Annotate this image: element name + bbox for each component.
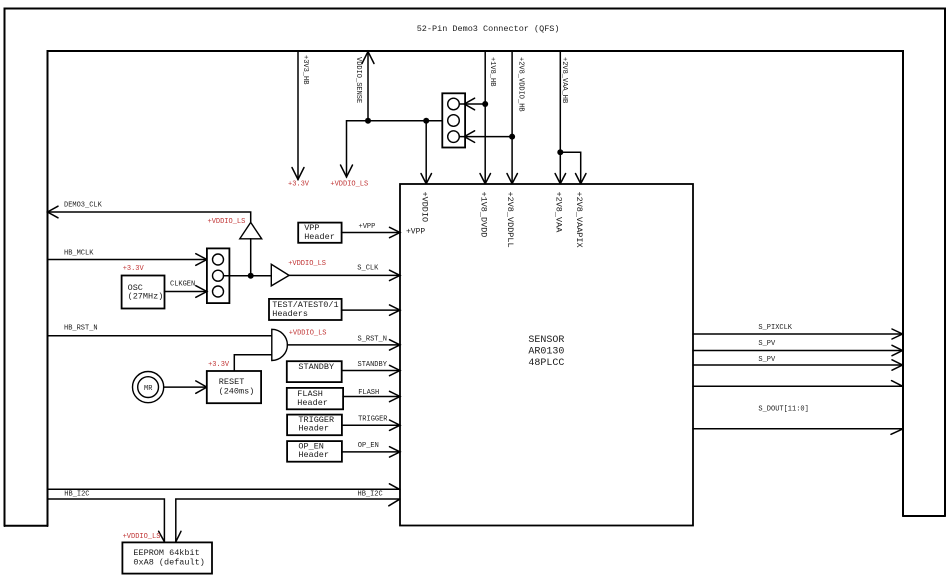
wire +1V8_HB drop bbox=[484, 51, 486, 184]
gate U4 AND bbox=[272, 329, 288, 360]
svg-text:0xA8 (default): 0xA8 (default) bbox=[133, 557, 204, 567]
wire STANDBY bbox=[342, 370, 400, 372]
svg-text:+2V8_VDDPLL: +2V8_VDDPLL bbox=[505, 192, 515, 248]
junction S_CLK tap bbox=[248, 273, 254, 279]
wire +2V8_VDDIO_HB drop bbox=[511, 51, 513, 184]
wire HB_I2C SDA left to eeprom bbox=[48, 499, 165, 542]
svg-text:+VDDIO_LS: +VDDIO_LS bbox=[123, 533, 161, 541]
junction VDDIO_SENSE bbox=[365, 118, 371, 124]
arrow OP_EN into sensor bbox=[390, 447, 401, 457]
pin 3 bbox=[213, 286, 224, 297]
wire CLKGEN bbox=[165, 291, 207, 293]
svg-text:FLASH: FLASH bbox=[358, 389, 379, 397]
arrow S_PIXCLK bbox=[892, 329, 903, 339]
svg-text:(27MHz): (27MHz) bbox=[128, 292, 164, 302]
svg-text:Headers: Headers bbox=[272, 309, 308, 319]
junction +VDDIO drop bbox=[423, 118, 429, 124]
pin 3 bbox=[448, 131, 460, 143]
svg-text:HB_RST_N: HB_RST_N bbox=[64, 325, 98, 333]
svg-text:+VDDIO_LS: +VDDIO_LS bbox=[208, 218, 246, 226]
connector left end join bbox=[5, 525, 48, 527]
wire +2V8_VAA_HB drop bbox=[559, 51, 561, 184]
oscillator Y1 bbox=[122, 276, 165, 309]
arrow CLKGEN into header bbox=[196, 286, 207, 298]
arrow +2V8_VAA pin bbox=[555, 174, 566, 184]
arrow HB_MCLK into header bbox=[196, 254, 207, 266]
arrow into eeprom right bbox=[176, 531, 181, 542]
arrow +VDDIO pin bbox=[421, 174, 432, 184]
arrow +1V8_DVDD pin bbox=[480, 174, 491, 184]
arrow FLASH into sensor bbox=[390, 391, 401, 401]
arrow S_PV 2 bbox=[892, 360, 903, 370]
svg-text:+VDDIO_LS: +VDDIO_LS bbox=[330, 181, 368, 189]
svg-text:STANDBY: STANDBY bbox=[298, 362, 334, 372]
wire TEST bbox=[342, 309, 400, 311]
junction +1V8 bbox=[482, 101, 488, 107]
arrow DEMO3_CLK out bbox=[48, 206, 59, 218]
arrow +VPP into sensor bbox=[390, 227, 401, 237]
wire HB_I2C SDA right bbox=[176, 499, 400, 542]
VPP header bbox=[298, 223, 341, 243]
svg-text:+2V8_VDDIO_HB: +2V8_VDDIO_HB bbox=[517, 57, 525, 112]
svg-text:CLKGEN: CLKGEN bbox=[170, 281, 195, 289]
arrow HB_I2C SDA half bbox=[389, 499, 400, 506]
wire buffer input bbox=[250, 239, 252, 276]
svg-text:TRIGGER: TRIGGER bbox=[358, 415, 388, 423]
wire pin1 to +1V8_HB bbox=[459, 103, 485, 105]
header J2 3-pin power bbox=[442, 93, 465, 147]
FLASH header bbox=[287, 388, 343, 409]
svg-text:S_DOUT[11:0]: S_DOUT[11:0] bbox=[758, 406, 808, 414]
svg-text:+3.3V: +3.3V bbox=[123, 265, 145, 273]
svg-text:STANDBY: STANDBY bbox=[358, 361, 388, 369]
buffer U3 S_CLK bbox=[271, 264, 289, 286]
wire DEMO3_CLK bbox=[48, 212, 251, 222]
wire +VDDIO into sensor bbox=[425, 121, 427, 184]
connector inner bus bbox=[48, 51, 904, 526]
junction +2V8_VDDIO bbox=[509, 134, 515, 140]
arrow into pin1 bbox=[464, 98, 474, 110]
svg-text:+VPP: +VPP bbox=[359, 223, 376, 231]
wire +VDDIO_LS branch bbox=[347, 121, 369, 177]
wire pin3 to +2V8_VDDIO_HB bbox=[459, 136, 512, 138]
wire pin2 to buffer bbox=[224, 275, 272, 277]
svg-text:+3.3V: +3.3V bbox=[288, 181, 310, 189]
arrow S_PV bbox=[892, 345, 903, 355]
svg-text:+1V8_HB: +1V8_HB bbox=[488, 57, 496, 86]
wire OP_EN bbox=[342, 451, 400, 453]
wire +2V8_VAAPIX branch bbox=[560, 152, 580, 184]
svg-text:+2V8_VAA_HB: +2V8_VAA_HB bbox=[560, 57, 568, 103]
junction +2V8_VAA bbox=[557, 149, 563, 155]
sensor U1 AR0130 bbox=[400, 184, 693, 526]
svg-text:+3.3V: +3.3V bbox=[208, 361, 230, 369]
arrow into pin3 bbox=[464, 131, 474, 143]
header J1 clock select bbox=[207, 248, 230, 303]
svg-text:+2V8_VAA: +2V8_VAA bbox=[553, 192, 563, 234]
svg-text:HB_I2C: HB_I2C bbox=[64, 491, 89, 499]
arrow into reset bbox=[196, 381, 207, 393]
arrow VDDIO_SENSE into bus bbox=[362, 52, 374, 64]
arrow S_CLK into sensor bbox=[390, 270, 401, 280]
wire reset to gate bbox=[234, 355, 271, 371]
arrow S_DOUT bottom half bbox=[891, 429, 903, 434]
svg-text:S_PV: S_PV bbox=[758, 356, 776, 364]
svg-text:Header: Header bbox=[304, 232, 335, 242]
wire +3V3_HB power drop bbox=[297, 51, 299, 180]
svg-text:S_CLK: S_CLK bbox=[357, 265, 379, 273]
wire S_PV 2 bbox=[693, 364, 903, 366]
arrow S_DOUT top half bbox=[892, 381, 903, 387]
TRIGGER header bbox=[287, 415, 342, 436]
arrow into eeprom left bbox=[159, 531, 165, 542]
svg-text:+3V3_HB: +3V3_HB bbox=[301, 55, 309, 84]
arrow HB_I2C SCL half bbox=[389, 484, 399, 490]
svg-text:Header: Header bbox=[297, 398, 328, 408]
svg-text:Header: Header bbox=[298, 450, 329, 460]
pushbutton MR inner bbox=[138, 377, 159, 398]
wire MR to reset bbox=[164, 386, 207, 388]
OP_EN header bbox=[287, 441, 342, 462]
buffer U2 clock driver up bbox=[240, 222, 262, 238]
wire HB_MCLK bbox=[48, 259, 207, 261]
svg-text:HB_I2C: HB_I2C bbox=[358, 491, 383, 499]
svg-text:+VDDIO: +VDDIO bbox=[419, 192, 429, 223]
arrow +VDDIO_LS terminal bbox=[341, 165, 353, 177]
svg-text:+1V8_DVDD: +1V8_DVDD bbox=[478, 192, 488, 238]
arrow +2V8_VDDPLL pin bbox=[507, 174, 517, 184]
reset supervisor U5 bbox=[207, 371, 261, 403]
svg-text:S_PV: S_PV bbox=[758, 340, 776, 348]
wire VDDIO_SENSE bbox=[367, 52, 369, 121]
svg-text:S_RST_N: S_RST_N bbox=[358, 335, 387, 343]
arrow S_RST_N into sensor bbox=[390, 340, 401, 350]
svg-text:+2V8_VAAPIX: +2V8_VAAPIX bbox=[574, 192, 584, 248]
svg-text:AR0130: AR0130 bbox=[528, 347, 564, 358]
wire S_CLK bbox=[289, 274, 400, 276]
svg-text:S_PIXCLK: S_PIXCLK bbox=[758, 324, 792, 332]
svg-text:+VDDIO_LS: +VDDIO_LS bbox=[288, 260, 326, 268]
wire S_PV bbox=[693, 350, 903, 352]
svg-text:48PLCC: 48PLCC bbox=[528, 358, 564, 369]
svg-text:MR: MR bbox=[144, 385, 153, 393]
pushbutton MR outer bbox=[133, 372, 164, 403]
eeprom U6 bbox=[122, 542, 212, 573]
svg-text:SENSOR: SENSOR bbox=[528, 335, 564, 346]
wire TRIGGER bbox=[342, 424, 400, 426]
svg-text:+VPP: +VPP bbox=[406, 227, 425, 236]
svg-text:+VDDIO_LS: +VDDIO_LS bbox=[289, 329, 327, 337]
pin 2 bbox=[448, 115, 460, 127]
arrow TEST into sensor bbox=[390, 305, 401, 315]
pin 1 bbox=[213, 254, 224, 265]
wire +VPP bbox=[342, 232, 400, 234]
svg-text:OP_EN: OP_EN bbox=[358, 442, 379, 450]
svg-text:(240ms): (240ms) bbox=[219, 386, 255, 396]
bus S_DOUT bottom bbox=[693, 428, 903, 430]
arrow TRIGGER into sensor bbox=[390, 420, 401, 430]
svg-text:VDDIO_SENSE: VDDIO_SENSE bbox=[354, 57, 362, 103]
arrow STANDBY into sensor bbox=[390, 365, 401, 375]
bus S_DOUT top bbox=[693, 385, 903, 387]
arrow +3.3V terminal bbox=[292, 168, 304, 180]
TEST/ATEST headers bbox=[269, 299, 342, 320]
wire HB_I2C SCL bbox=[48, 488, 401, 490]
pin 1 bbox=[448, 98, 460, 110]
svg-text:52-Pin Demo3 Connector (QFS): 52-Pin Demo3 Connector (QFS) bbox=[417, 24, 560, 34]
wire S_PIXCLK bbox=[693, 333, 903, 335]
connector right end join bbox=[903, 515, 945, 517]
STANDBY header bbox=[287, 361, 342, 382]
pin 2 bbox=[213, 270, 224, 281]
svg-text:DEMO3_CLK: DEMO3_CLK bbox=[64, 201, 103, 209]
wire HB_RST_N bbox=[48, 335, 272, 337]
arrow +2V8_VAAPIX pin bbox=[576, 174, 587, 184]
wire S_RST_N bbox=[287, 344, 400, 346]
wire FLASH bbox=[343, 396, 400, 398]
wire VDDIO to header bbox=[368, 120, 448, 122]
svg-text:Header: Header bbox=[298, 424, 329, 434]
svg-text:HB_MCLK: HB_MCLK bbox=[64, 250, 94, 258]
